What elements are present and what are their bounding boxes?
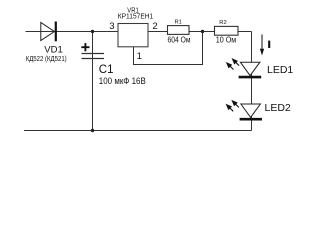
svg-text:КД522 (КД521): КД522 (КД521): [26, 56, 67, 63]
svg-text:1: 1: [137, 51, 142, 62]
svg-text:100 мкФ 16В: 100 мкФ 16В: [99, 76, 146, 86]
svg-text:604 Ом: 604 Ом: [168, 35, 191, 44]
svg-text:10 Ом: 10 Ом: [216, 36, 237, 45]
svg-text:3: 3: [109, 21, 114, 32]
svg-text:LED2: LED2: [265, 102, 291, 114]
svg-text:C1: C1: [99, 64, 114, 76]
svg-text:КР1157ЕН1: КР1157ЕН1: [118, 12, 154, 21]
svg-text:VD1: VD1: [44, 44, 62, 55]
svg-text:LED1: LED1: [267, 64, 293, 76]
svg-text:R2: R2: [219, 20, 226, 26]
svg-text:R1: R1: [174, 20, 181, 26]
svg-text:2: 2: [152, 21, 157, 32]
